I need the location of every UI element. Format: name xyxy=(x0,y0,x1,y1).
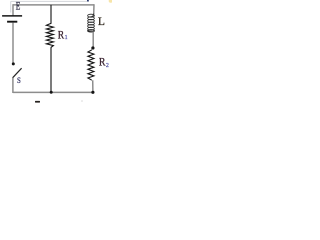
wire left upper (to battery) xyxy=(12,4,14,15)
resistor R1 zigzag xyxy=(46,23,53,47)
bottom faint speck xyxy=(81,100,83,102)
wire switch to bottom corner xyxy=(12,78,14,93)
faint cropped frame top line xyxy=(11,0,89,2)
resistor R2 zigzag xyxy=(88,50,94,80)
wire bottom horizontal xyxy=(13,91,93,93)
wire R2 to bottom corner xyxy=(92,80,94,92)
wire inductor to node xyxy=(92,32,94,47)
top-right yellow smudge xyxy=(109,0,113,3)
svg-text:2: 2 xyxy=(106,63,109,69)
svg-text:1: 1 xyxy=(65,35,68,41)
svg-text:R: R xyxy=(99,55,106,69)
wire right branch top corner xyxy=(93,4,95,14)
wire middle branch upper xyxy=(50,5,52,24)
inductor L coil loops xyxy=(88,14,95,32)
wire top horizontal xyxy=(13,4,94,6)
battery E short plate xyxy=(7,21,17,23)
svg-text:E: E xyxy=(16,0,21,13)
inductor L bottom tail xyxy=(89,30,94,33)
wire battery to switch xyxy=(12,23,14,63)
battery E long plate xyxy=(2,15,22,17)
node dot between L and R2 xyxy=(91,46,94,49)
switch S blade xyxy=(13,68,22,78)
switch S fixed contact dot xyxy=(12,62,15,65)
svg-text:R: R xyxy=(58,27,64,41)
junction dot bottom-right xyxy=(91,91,94,94)
svg-text:S: S xyxy=(17,76,21,85)
top edge blue text fragment xyxy=(87,0,89,1)
inductor L top tail xyxy=(92,14,94,17)
svg-text:L: L xyxy=(98,14,105,28)
wire middle branch lower xyxy=(50,47,52,92)
junction dot middle-bottom xyxy=(50,91,53,94)
bottom cropped caption dash xyxy=(35,101,40,103)
faint cropped frame left line xyxy=(10,1,12,12)
